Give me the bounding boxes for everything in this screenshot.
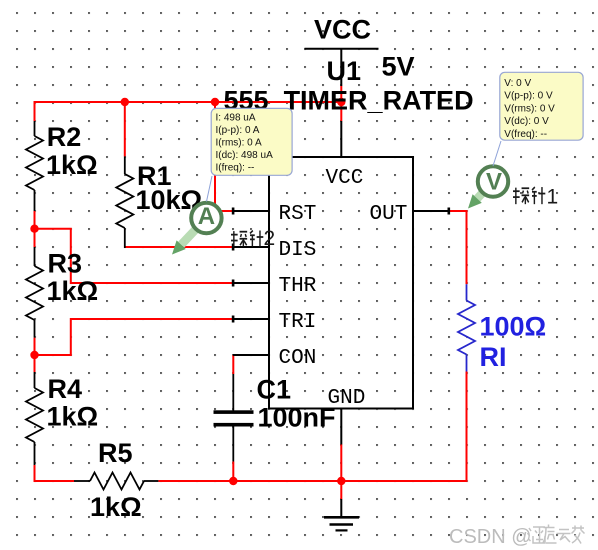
wire GND pin to ground rail — [340, 445, 342, 500]
resistor R1 body — [116, 102, 133, 248]
svg-text:R2: R2 — [47, 122, 82, 152]
svg-text:CSDN @: CSDN @ — [449, 526, 532, 548]
wire CON to C1 top — [232, 355, 234, 374]
wire DIS from R1 bottom — [125, 246, 233, 248]
node R1 top — [121, 98, 129, 106]
svg-text:I(rms): 0 A: I(rms): 0 A — [216, 138, 262, 149]
svg-text:V(p-p): 0 V: V(p-p): 0 V — [504, 91, 553, 102]
resistor R2 body — [26, 101, 43, 229]
probe 2 label 探针2 — [231, 231, 263, 247]
svg-text:C1: C1 — [257, 375, 292, 405]
pin CON stub — [233, 354, 269, 356]
wire THR branch — [35, 229, 234, 283]
svg-text:1kΩ: 1kΩ — [47, 276, 99, 306]
node GND rail — [337, 477, 345, 485]
svg-text:U1: U1 — [327, 56, 362, 86]
tooltip connector line probe V — [493, 141, 501, 166]
svg-text:1: 1 — [547, 186, 559, 209]
wire RI top red — [466, 210, 468, 284]
wire VCC symbol to rail (red part) — [340, 86, 342, 121]
svg-text:CON: CON — [279, 347, 317, 370]
wire RST branch from rail to RST pin — [215, 102, 233, 211]
svg-text:5V: 5V — [382, 52, 415, 82]
tooltip connector line probe A — [207, 176, 213, 202]
tooltip probe V readings — [500, 72, 583, 140]
svg-text:OUT: OUT — [370, 203, 408, 226]
probe 2 current probe A — [172, 203, 222, 255]
svg-text:V(freq): --: V(freq): -- — [504, 129, 547, 140]
resistor R3 body — [26, 229, 43, 355]
svg-text:TRI: TRI — [279, 311, 317, 334]
pin RST stub — [233, 210, 269, 212]
pin VCC stub — [340, 121, 342, 157]
pin THR stub — [233, 282, 269, 284]
probe 1 label 探针1 — [513, 187, 545, 204]
svg-text:1kΩ: 1kΩ — [46, 150, 98, 180]
wire C1 bottom to ground rail — [232, 462, 234, 482]
svg-text:R4: R4 — [48, 374, 83, 404]
svg-text:100Ω: 100Ω — [480, 311, 547, 341]
svg-text:R3: R3 — [48, 248, 83, 278]
pin GND stub — [340, 409, 342, 445]
resistor RI body (blue) — [458, 284, 475, 371]
svg-text:100nF: 100nF — [258, 403, 336, 433]
tooltip probe A readings — [211, 108, 292, 175]
wire RI bottom red — [466, 372, 468, 483]
wire VCC top rail y=102 — [35, 101, 342, 103]
wire bottom rail right of R5 — [158, 480, 466, 482]
svg-text:2: 2 — [264, 227, 276, 250]
capacitor C1 — [214, 374, 254, 462]
svg-text:R5: R5 — [98, 438, 133, 468]
node R3/R4/TRI — [30, 351, 38, 359]
VCC power symbol — [305, 14, 379, 86]
ground — [324, 499, 359, 530]
svg-text:RST: RST — [279, 203, 317, 226]
svg-text:I(p-p): 0 A: I(p-p): 0 A — [216, 125, 260, 136]
wire bottom rail left of R5 — [35, 480, 75, 482]
node RST branch — [211, 98, 219, 106]
svg-text:DIS: DIS — [279, 239, 317, 262]
pin TRI stub — [233, 318, 269, 320]
wire OUT to RI column — [449, 210, 468, 212]
svg-text:1kΩ: 1kΩ — [47, 401, 99, 431]
svg-text:VCC: VCC — [314, 14, 371, 44]
svg-text:V(rms): 0 V: V(rms): 0 V — [504, 103, 555, 114]
svg-text:I: 498 uA: I: 498 uA — [216, 113, 256, 124]
svg-text:1kΩ: 1kΩ — [90, 492, 142, 522]
svg-text:I(freq): --: I(freq): -- — [216, 163, 255, 174]
svg-text:V(dc): 0 V: V(dc): 0 V — [504, 116, 549, 127]
node VCC rail right — [337, 98, 345, 106]
node C1 bottom — [229, 477, 237, 485]
svg-text:VCC: VCC — [326, 167, 364, 190]
pin DIS stub — [233, 246, 269, 248]
wire TRI branch — [35, 319, 234, 355]
resistor R4 body — [26, 355, 43, 482]
node R2/R3/THR — [30, 225, 38, 233]
op-amp U1 555 timer box — [269, 157, 413, 409]
pin OUT stub — [413, 210, 449, 212]
resistor R5 body — [74, 473, 158, 490]
svg-text:V: 0 V: V: 0 V — [504, 78, 531, 89]
svg-text:A: A — [198, 203, 215, 230]
svg-text:I(dc): 498 uA: I(dc): 498 uA — [216, 150, 274, 161]
svg-text:THR: THR — [279, 275, 317, 298]
svg-text:RI: RI — [480, 342, 507, 372]
svg-text:V: V — [486, 169, 502, 196]
probe 1 voltage probe V — [468, 166, 508, 208]
